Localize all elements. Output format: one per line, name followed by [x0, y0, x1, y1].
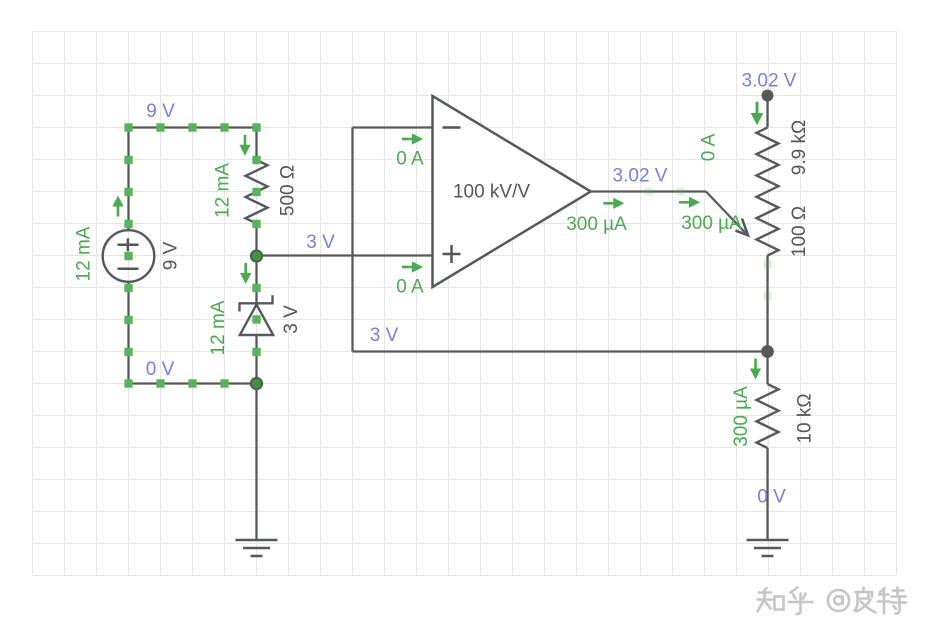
wire op-amp output (3.02 V): [592, 190, 707, 192]
svg-text:3.02 V: 3.02 V: [613, 166, 668, 187]
wire feedback vertical: [351, 128, 353, 352]
current arrow 12mA up (source): [112, 196, 123, 217]
svg-text:300 µA: 300 µA: [731, 386, 752, 447]
svg-text:100 Ω: 100 Ω: [789, 206, 810, 257]
wire zener bottom lead: [255, 335, 257, 384]
svg-text:0 A: 0 A: [396, 149, 424, 170]
svg-text:0 A: 0 A: [699, 133, 720, 161]
svg-text:3 V: 3 V: [370, 325, 399, 346]
svg-text:300 µA: 300 µA: [566, 214, 627, 235]
op-amp non-inverting input pin +: [443, 245, 461, 263]
svg-text:9.9 kΩ: 9.9 kΩ: [789, 120, 810, 175]
resistor R2/R3 chain 9.9k + 100 (potentiometer): [757, 128, 779, 256]
svg-text:3.02 V: 3.02 V: [742, 71, 797, 92]
svg-text:3 V: 3 V: [281, 305, 302, 334]
V1 minus sign: [118, 268, 139, 271]
wire R4 bottom to ground right: [766, 448, 768, 540]
node 3.02V top-right: [762, 90, 774, 102]
wire node to ground left: [255, 384, 257, 541]
svg-text:0 V: 0 V: [146, 359, 175, 380]
wire output diagonal to wiper: [706, 192, 746, 234]
svg-text:12 mA: 12 mA: [74, 226, 95, 281]
svg-text:9 V: 9 V: [161, 241, 182, 270]
V1 plus sign: [118, 238, 139, 251]
svg-text:9 V: 9 V: [146, 101, 175, 122]
wire R1 bottom lead / node 3V: [255, 224, 257, 257]
op-amp inverting input pin -: [443, 126, 461, 129]
ground left: [236, 540, 278, 556]
wire zener top lead: [255, 256, 257, 304]
wire op-amp - input: [353, 126, 433, 128]
current flow dots (12 mA loop): [124, 123, 132, 131]
resistor R1 500 Ohm: [246, 160, 268, 224]
svg-text:300 µA: 300 µA: [681, 213, 742, 234]
current arrow 0A right (inv input): [402, 133, 423, 144]
current arrow 12mA down (zener): [240, 263, 251, 284]
svg-text:0 V: 0 V: [757, 487, 786, 508]
svg-text:100 kV/V: 100 kV/V: [453, 182, 530, 203]
wire feedback horizontal (3 V): [353, 350, 769, 352]
watermark zhihu @pite: [758, 588, 907, 615]
potentiometer wiper arrowhead: [736, 219, 749, 236]
current arrow 300uA right (output): [603, 198, 624, 209]
node feedback right: [761, 345, 774, 358]
svg-text:500 Ω: 500 Ω: [278, 165, 299, 216]
wire left lower (source bottom lead): [127, 282, 129, 384]
zener diode D1 triangle: [240, 305, 273, 336]
wire op-amp + input (3 V): [257, 254, 433, 256]
svg-text:10 kΩ: 10 kΩ: [795, 393, 816, 443]
current arrow 300uA down (R4): [750, 359, 761, 380]
wire R1 top lead: [255, 128, 257, 161]
wire top (9 V net): [129, 126, 257, 128]
current arrow 0A right (non-inv input): [402, 261, 423, 272]
wire left upper (source top lead): [127, 128, 129, 231]
wire node 3.02V to R2 top: [766, 96, 768, 128]
ground right: [747, 540, 789, 556]
resistor R4 10 kOhm: [757, 384, 779, 448]
svg-text:0 A: 0 A: [396, 277, 424, 298]
wire bottom (0 V net): [129, 382, 257, 384]
node junction 0V bottom-left (green): [251, 378, 262, 389]
current arrow 12mA down (R1): [239, 135, 250, 156]
voltage source V1 9V circle: [103, 230, 155, 282]
svg-text:3 V: 3 V: [306, 232, 335, 253]
node junction 3V (green): [251, 250, 262, 261]
wire feedback node to R4 top: [766, 352, 768, 385]
current arrow 0A down (R2 top): [751, 102, 764, 126]
zener diode D1 cathode bar: [240, 295, 273, 311]
grid background: [33, 32, 897, 576]
op-amp U1 triangle: [433, 96, 591, 287]
wire R3 bottom to feedback node: [766, 256, 768, 352]
current arrow 300uA right (to wiper): [679, 197, 700, 208]
svg-text:12 mA: 12 mA: [213, 163, 234, 218]
svg-text:12 mA: 12 mA: [208, 300, 229, 355]
